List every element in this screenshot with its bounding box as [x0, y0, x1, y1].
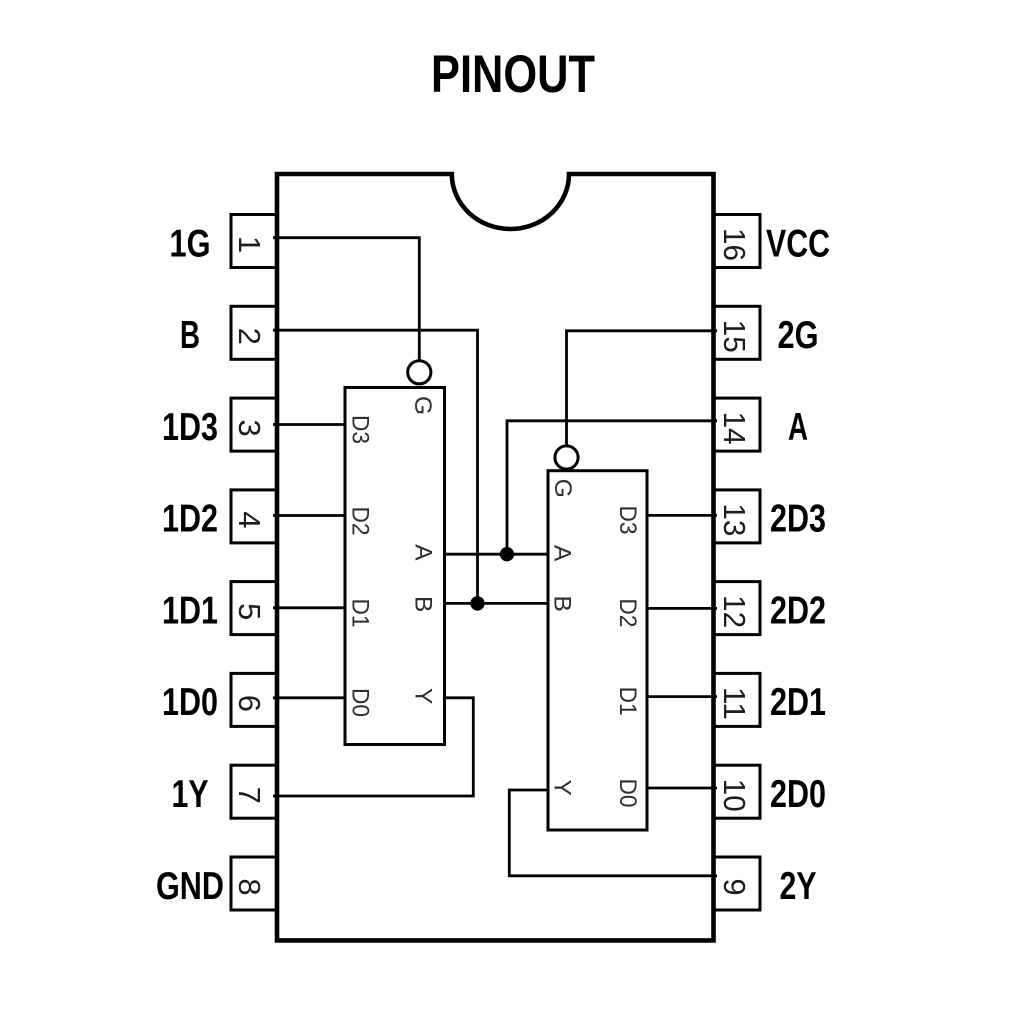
wire U2 D1 to pin11 2D1 — [646, 695, 717, 698]
pin 5 box — [231, 582, 277, 635]
svg-text:D3: D3 — [347, 415, 374, 444]
svg-text:GND: GND — [156, 865, 224, 908]
svg-text:2D1: 2D1 — [770, 681, 826, 724]
svg-text:8: 8 — [232, 878, 267, 895]
svg-text:B: B — [180, 314, 200, 357]
pin 16 box — [714, 215, 761, 268]
svg-text:10: 10 — [717, 779, 752, 812]
wire pin5 1D1 to U1 — [273, 606, 346, 609]
svg-text:2G: 2G — [778, 314, 819, 357]
wire U2 D0 to pin10 2D0 — [646, 787, 717, 790]
svg-text:1G: 1G — [170, 222, 211, 265]
svg-text:12: 12 — [717, 595, 752, 628]
pin 9 box — [714, 857, 761, 910]
pin 6 box — [231, 673, 277, 726]
svg-text:D3: D3 — [614, 506, 641, 535]
wire U2 Y to pin9 2Y — [509, 790, 717, 876]
pin 8 box — [231, 857, 277, 910]
pin 13 box — [714, 490, 761, 543]
svg-text:6: 6 — [232, 695, 267, 712]
svg-text:14: 14 — [717, 412, 752, 445]
pin 7 box — [231, 765, 277, 818]
wire pin6 1D0 to U1 — [273, 696, 346, 699]
svg-text:Y: Y — [410, 688, 437, 704]
wire U1 Y to pin7 1Y — [273, 698, 473, 796]
svg-text:D1: D1 — [347, 599, 374, 628]
svg-text:1D2: 1D2 — [162, 498, 218, 541]
svg-text:A: A — [549, 545, 576, 562]
wire pin1 1G to U1 G bubble — [273, 238, 419, 361]
svg-text:11: 11 — [717, 687, 752, 720]
svg-text:3: 3 — [232, 419, 267, 436]
IC body with notch — [277, 174, 714, 940]
pin 3 box — [231, 398, 277, 451]
U1 G inverter bubble — [408, 361, 431, 384]
junction node B — [470, 596, 484, 610]
svg-text:1D1: 1D1 — [162, 589, 218, 632]
svg-text:1: 1 — [232, 236, 267, 253]
wire pin15 2G to U2 G bubble — [567, 331, 718, 446]
U2 G inverter bubble — [555, 446, 578, 469]
svg-text:1Y: 1Y — [172, 773, 209, 816]
svg-text:G: G — [549, 479, 576, 498]
svg-text:VCC: VCC — [766, 222, 830, 265]
svg-text:Y: Y — [549, 780, 576, 796]
wire node A row U1 to U2 — [444, 553, 549, 556]
wire node A to pin14 A — [507, 421, 717, 554]
svg-text:15: 15 — [717, 320, 752, 353]
wire pin2 B to node B — [273, 330, 478, 603]
svg-text:2D0: 2D0 — [770, 773, 826, 816]
svg-text:D1: D1 — [614, 687, 641, 716]
pin 14 box — [714, 398, 761, 451]
pin 12 box — [714, 582, 761, 635]
svg-text:2D3: 2D3 — [770, 498, 826, 541]
pin 2 box — [231, 306, 277, 359]
mux U2 — [548, 471, 647, 830]
svg-text:A: A — [410, 544, 437, 561]
svg-text:5: 5 — [232, 603, 267, 620]
svg-text:D2: D2 — [614, 598, 641, 627]
svg-text:1D0: 1D0 — [162, 681, 218, 724]
junction node A — [500, 547, 514, 561]
svg-text:A: A — [788, 406, 808, 449]
pin 10 box — [714, 765, 761, 818]
svg-text:2Y: 2Y — [780, 865, 817, 908]
svg-text:4: 4 — [232, 511, 267, 528]
wire U2 D2 to pin12 2D2 — [646, 607, 717, 610]
pin 1 box — [231, 215, 277, 268]
svg-text:1D3: 1D3 — [162, 406, 218, 449]
wire pin3 1D3 to U1 — [273, 423, 346, 426]
svg-text:7: 7 — [232, 787, 267, 804]
pin 15 box — [714, 306, 761, 359]
svg-text:13: 13 — [717, 503, 752, 536]
svg-text:B: B — [549, 596, 576, 612]
svg-text:2D2: 2D2 — [770, 589, 826, 632]
svg-text:D2: D2 — [347, 507, 374, 536]
wire node B row U1 to U2 — [444, 602, 549, 605]
svg-text:16: 16 — [717, 228, 752, 261]
wire pin4 1D2 to U1 — [273, 514, 346, 517]
wire U2 D3 to pin13 2D3 — [646, 514, 717, 517]
pin 4 box — [231, 490, 277, 543]
svg-text:PINOUT: PINOUT — [431, 45, 595, 104]
svg-text:D0: D0 — [614, 779, 641, 808]
mux U1 — [345, 388, 445, 745]
svg-text:D0: D0 — [347, 688, 374, 717]
pin 11 box — [714, 673, 761, 726]
svg-text:B: B — [410, 596, 437, 612]
svg-text:G: G — [409, 396, 436, 415]
svg-text:2: 2 — [232, 328, 267, 345]
svg-text:9: 9 — [717, 878, 752, 895]
